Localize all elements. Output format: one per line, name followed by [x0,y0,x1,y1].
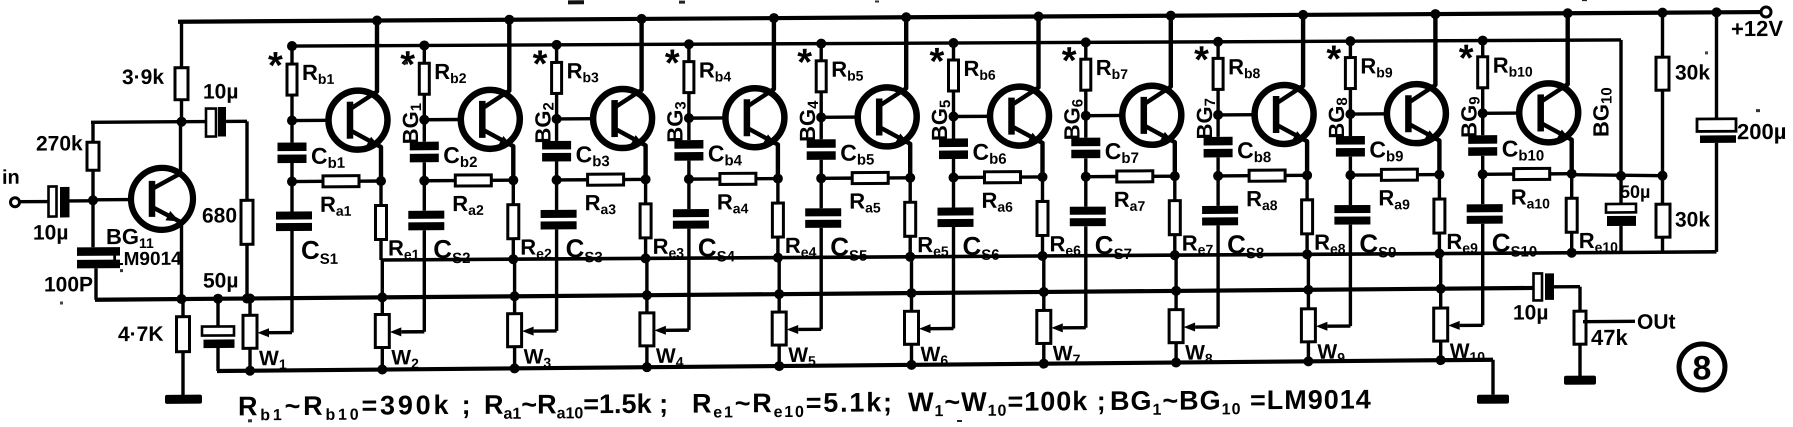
svg-text:*: * [268,45,283,87]
svg-text:*: * [400,44,415,86]
svg-text:BG1~BG10 =LM9014: BG1~BG10 =LM9014 [1110,384,1372,419]
svg-text:30k: 30k [1675,61,1710,84]
svg-text:*: * [533,43,548,85]
svg-text:8: 8 [1693,349,1712,387]
svg-text:*: * [1062,40,1077,82]
svg-text:50µ: 50µ [203,269,238,292]
svg-text:in: in [2,167,20,189]
svg-text:50µ: 50µ [1620,182,1650,202]
svg-text:OUt: OUt [1637,311,1675,334]
svg-text:200µ: 200µ [1737,119,1786,144]
svg-text:*: * [665,43,680,85]
svg-text:47k: 47k [1591,325,1628,350]
svg-text:3·9k: 3·9k [122,66,164,89]
svg-text:+12V: +12V [1731,16,1783,41]
svg-text:LM9014: LM9014 [112,249,182,270]
svg-text:*: * [1459,38,1474,80]
svg-text:10µ: 10µ [203,80,238,103]
svg-text:*: * [797,42,812,84]
svg-text:100P: 100P [44,273,93,296]
svg-text:30k: 30k [1675,208,1710,231]
svg-text:4·7K: 4·7K [118,323,164,346]
svg-text:*: * [930,41,945,83]
svg-text:10µ: 10µ [1513,301,1548,324]
svg-text:10µ: 10µ [33,221,68,244]
svg-text:270k: 270k [36,132,83,155]
svg-text:*: * [1326,39,1341,81]
svg-text:*: * [1194,39,1209,81]
svg-text:680: 680 [202,204,237,227]
